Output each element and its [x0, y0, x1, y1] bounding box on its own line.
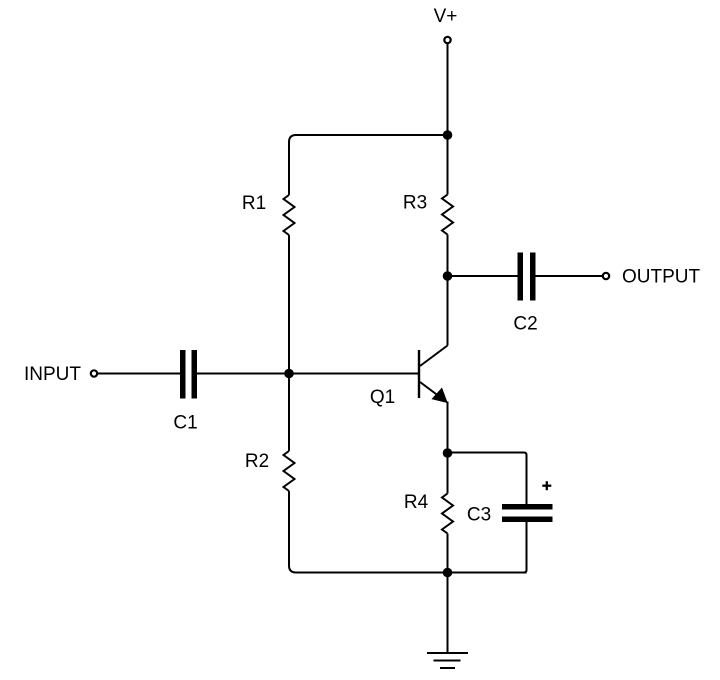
resistor R1 — [284, 195, 295, 235]
capacitor C2 — [518, 253, 536, 301]
junction top rail — [443, 130, 453, 140]
junction collector node — [443, 271, 453, 281]
wire ground rail to ground — [447, 573, 449, 654]
svg-text:C1: C1 — [173, 412, 197, 433]
svg-text:Q1: Q1 — [370, 387, 395, 408]
svg-text:R1: R1 — [242, 193, 266, 214]
wire V+ to top rail — [447, 44, 449, 136]
wire emitter node to R4 — [447, 453, 449, 494]
terminal INPUT — [91, 370, 97, 376]
wire R2 bottom to ground rail — [289, 491, 527, 573]
wire input terminal to C1 — [98, 373, 181, 375]
junction base node — [284, 369, 294, 379]
svg-text:C3: C3 — [467, 504, 491, 525]
capacitor C1 — [180, 350, 197, 399]
capacitor C3 polarity plus — [542, 481, 551, 490]
wire C2 to output terminal — [536, 275, 603, 277]
capacitor C3 — [502, 504, 553, 522]
wire R1 bottom to base node — [288, 235, 290, 374]
resistor R4 — [442, 494, 453, 534]
terminal OUTPUT — [603, 273, 609, 279]
wire top rail and R1 top lead — [289, 135, 448, 195]
wire R3 bottom to collector node — [447, 235, 449, 277]
terminal V+ — [444, 37, 450, 43]
junction emitter node — [443, 448, 453, 458]
wire top rail to R3 — [447, 135, 449, 195]
resistor R3 — [442, 195, 453, 235]
resistor R2 — [284, 451, 295, 491]
svg-text:R4: R4 — [404, 492, 429, 513]
ground — [427, 653, 468, 668]
wire collector node to C2 — [448, 275, 518, 277]
wire R4 bottom to ground rail — [447, 534, 449, 573]
svg-text:OUTPUT: OUTPUT — [622, 266, 701, 287]
svg-text:C2: C2 — [513, 313, 537, 334]
wire C1 to transistor base — [197, 373, 419, 375]
wire emitter node to C3 top — [448, 453, 527, 507]
svg-text:R3: R3 — [403, 192, 427, 213]
svg-text:R2: R2 — [245, 451, 269, 472]
wire collector to transistor — [447, 276, 449, 346]
wire emitter to emitter node — [447, 402, 449, 454]
junction ground rail — [443, 568, 453, 578]
svg-text:V+: V+ — [434, 6, 458, 27]
transistor Q1 — [419, 346, 448, 403]
wire C3 bottom to ground rail — [524, 519, 527, 573]
wire base node to R2 — [288, 374, 290, 452]
svg-text:INPUT: INPUT — [24, 364, 81, 385]
